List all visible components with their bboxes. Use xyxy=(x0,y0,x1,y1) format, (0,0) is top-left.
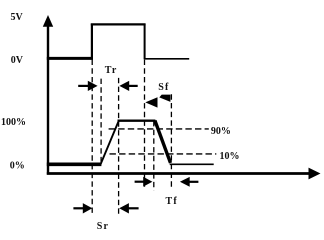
svg-text:100%: 100% xyxy=(1,117,26,128)
svg-text:Tr: Tr xyxy=(105,65,118,76)
input waveform falling edge xyxy=(144,24,146,59)
Tr measure left arrow xyxy=(119,81,137,91)
input waveform 0V segment xyxy=(47,57,93,60)
output waveform rising edge xyxy=(101,121,119,164)
Sr measure right arrow xyxy=(73,203,92,213)
output waveform 100% top segment xyxy=(118,120,156,122)
svg-text:Tf: Tf xyxy=(166,196,178,207)
dashed guide line at input falling edge xyxy=(144,60,146,190)
svg-text:90%: 90% xyxy=(211,126,231,137)
input waveform 0V tail segment xyxy=(145,58,190,60)
output waveform 0% segment xyxy=(47,163,102,167)
svg-text:Sr: Sr xyxy=(97,221,109,232)
dashed 90% level line xyxy=(109,128,209,130)
input waveform rising edge xyxy=(91,24,93,60)
Tf measure right arrow xyxy=(135,177,153,187)
input waveform 5V top segment xyxy=(91,23,146,25)
output waveform low tail segment xyxy=(170,163,214,165)
svg-text:0V: 0V xyxy=(11,55,24,66)
Sf measure left arrowhead xyxy=(145,97,157,107)
svg-text:Sf: Sf xyxy=(158,82,169,93)
Sr measure left arrow xyxy=(119,203,138,213)
svg-text:10%: 10% xyxy=(220,151,240,162)
dashed guide line at output fall end xyxy=(170,94,172,190)
dashed 10% level line xyxy=(110,153,217,155)
svg-text:5V: 5V xyxy=(11,12,24,23)
x-axis xyxy=(47,168,321,180)
Tr measure right arrow xyxy=(78,81,97,91)
Tf measure left arrow xyxy=(180,177,199,187)
y-axis xyxy=(43,15,53,175)
Sf measure tilted arrowhead xyxy=(159,95,170,102)
dashed guide line at output fall start xyxy=(153,121,155,191)
svg-text:0%: 0% xyxy=(10,160,25,171)
dashed guide line at output rise end xyxy=(118,78,120,215)
output waveform falling edge xyxy=(155,121,171,163)
dashed guide line at output rise start xyxy=(100,79,102,163)
dashed guide line at input rising edge xyxy=(91,60,93,215)
